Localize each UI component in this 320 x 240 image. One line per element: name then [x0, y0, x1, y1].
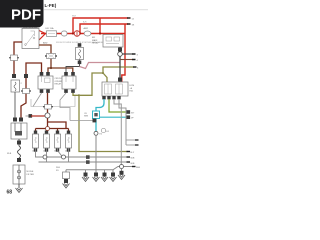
junction circle bus C — [120, 165, 124, 169]
injector no.1 — [32, 131, 39, 153]
tick bus A right — [127, 156, 131, 158]
connector square cyan end — [127, 115, 131, 119]
connector square — [19, 118, 23, 122]
svg-text:W-B: W-B — [136, 167, 141, 169]
wire: injector 1 to bus A — [36, 148, 44, 157]
wavy high tension lead — [18, 146, 21, 158]
svg-text:W-B: W-B — [7, 153, 12, 155]
wire: red main bus — [41, 33, 125, 35]
svg-text:RELAY: RELAY — [55, 83, 62, 86]
wire: olive diagonal to ECU — [103, 73, 107, 96]
drop ground 4 — [101, 170, 108, 182]
junction circle below sensor — [94, 131, 98, 135]
tick olive lower right — [127, 151, 131, 153]
wire: brown to relay B right pin — [51, 68, 73, 72]
wire: red feed to right edge lower — [80, 24, 128, 34]
ground symbol far left — [16, 188, 23, 193]
PDF badge — [0, 0, 44, 28]
svg-text:W-B: W-B — [131, 163, 136, 165]
svg-text:PDF: PDF — [11, 7, 41, 24]
wire: brown to relay A right pin — [48, 68, 51, 72]
injector no.3 — [54, 131, 61, 153]
wire: dark red stub right 2 — [120, 59, 133, 61]
connector inline maroon net — [21, 89, 31, 94]
connector inline — [43, 105, 53, 110]
svg-text:W-R: W-R — [72, 16, 77, 18]
wire: olive up branch — [79, 73, 103, 95]
svg-text:ECM: ECM — [130, 85, 135, 87]
tick red stub 2 — [127, 23, 131, 25]
wire: ground bus A — [45, 156, 128, 158]
svg-text:1J: 1J — [132, 19, 134, 21]
wire: red V into ignition switch — [39, 31, 46, 41]
connector square at end — [93, 119, 97, 123]
connector square — [17, 158, 21, 162]
drop ground 3 sensor line — [93, 173, 100, 182]
svg-text:SEN: SEN — [84, 116, 89, 118]
circuit opening relay box A — [38, 76, 64, 89]
wire: cyan below sensor — [95, 119, 97, 132]
wire: green ECU branch — [109, 99, 127, 112]
header rule — [44, 9, 148, 11]
wire: cyan ECU to oxygen sensor — [96, 99, 104, 111]
junction dot brown — [50, 67, 52, 69]
junction circles bus A — [43, 155, 47, 159]
connector square — [13, 118, 17, 122]
wire: maroon down to injector bus — [47, 118, 49, 128]
drop ground 1 with inline box — [63, 170, 70, 188]
wire: black to box B left pin — [66, 67, 80, 73]
svg-text:EFI: EFI — [92, 37, 96, 39]
wire: maroon net relay A left / igniter — [21, 63, 42, 118]
connector square — [17, 141, 21, 145]
gray stub right 2 — [126, 144, 136, 146]
svg-text:B-Y: B-Y — [131, 152, 135, 154]
oxygen sensor connector — [84, 111, 100, 119]
svg-text:EFI 15A: EFI 15A — [46, 27, 54, 30]
fuse EFI on red bus — [47, 31, 57, 37]
junction dot olive — [78, 94, 80, 96]
wire: cyan check connector branch — [100, 116, 128, 118]
wire: olive from box B right bottom pin — [73, 93, 79, 95]
wire: brown from ignition switch right — [39, 45, 51, 68]
wire below time switch — [79, 60, 81, 67]
box B pin connectors — [64, 72, 68, 76]
connector square — [78, 61, 82, 65]
tick bus C right — [132, 166, 136, 168]
injector no.4 — [65, 131, 72, 153]
wire: red long vertical to ECU — [122, 24, 125, 83]
relay A pin connectors — [40, 72, 44, 76]
svg-text:FILTER: FILTER — [27, 174, 35, 176]
wire: red feed to right edge upper — [73, 18, 128, 34]
wire: ground bus C — [66, 167, 133, 170]
wire: injector 2 to bus B — [46, 148, 48, 162]
gray lead left of tach stub — [26, 115, 29, 117]
ECU bottom pin connectors — [102, 96, 105, 99]
connector inline on brown — [45, 54, 57, 59]
svg-text:W-B: W-B — [131, 158, 136, 160]
drop ground 2 — [82, 170, 89, 182]
check connector circle — [101, 128, 105, 132]
wire: maroon branch rectangle — [48, 122, 67, 129]
tick red stub 1 — [127, 17, 131, 19]
drop ground 5 — [110, 170, 117, 182]
wire: olive down-loop to right column — [79, 95, 128, 151]
wire below noise filter — [18, 184, 20, 188]
wire: injector 3 to bus A diagonal — [58, 148, 62, 156]
wire: gray ECU pin to bottom junction — [114, 99, 121, 167]
wire: gray below coil box — [14, 92, 16, 118]
wire: pink to ECU area — [80, 63, 120, 69]
svg-text:B-R: B-R — [83, 22, 87, 24]
junction circle node — [45, 113, 50, 118]
svg-text:AM2: AM2 — [43, 42, 48, 45]
ECU box — [102, 82, 134, 96]
wire below coil — [18, 139, 20, 146]
wire: ground bus B — [39, 161, 128, 163]
connector square maroon left — [12, 74, 16, 78]
connector square green end — [127, 110, 131, 114]
connector square above — [78, 43, 82, 47]
fuse inline maroon left — [9, 55, 18, 61]
connector square on maroon net upper — [24, 74, 28, 78]
wire: maroon from ignition switch left — [14, 42, 22, 74]
svg-text:RELAY: RELAY — [92, 42, 99, 45]
svg-text:40: 40 — [65, 151, 67, 153]
noise filter box — [13, 165, 34, 184]
drop ground 6 below circle — [118, 169, 125, 180]
wire: maroon relay A right bottom to junction — [47, 93, 49, 113]
junction dot olive 2 — [102, 72, 104, 74]
svg-text:30: 30 — [54, 151, 56, 153]
svg-text:NOISE: NOISE — [27, 171, 34, 173]
wire: black from relay to ECU — [119, 47, 121, 82]
igniter ignition coil box — [11, 123, 27, 139]
wire: gray diagonal from box B bottom-left — [60, 93, 70, 121]
wire: olive to right stub — [103, 67, 134, 73]
EFI main relay box — [92, 35, 123, 48]
wire: injector 4 to bus B — [68, 148, 70, 162]
wire: red stub to tachometer — [31, 115, 45, 117]
svg-text:FROM POWER SOURCE SYSTEM (SEE: FROM POWER SOURCE SYSTEM (SEE PAGE 20) — [56, 41, 107, 44]
svg-text:20: 20 — [43, 151, 45, 153]
cold start injector coil box — [11, 80, 23, 92]
wire: bus drops — [36, 129, 69, 133]
start injector time switch box — [76, 48, 84, 60]
distributor outer box — [31, 95, 75, 107]
wire: gray diagonal from relay A bottom-left — [33, 93, 42, 107]
gray stub right 1 — [126, 139, 136, 141]
svg-text:L-FE): L-FE) — [45, 3, 57, 8]
wire: injector feed bus — [36, 128, 69, 130]
connector square — [29, 114, 33, 118]
connector circle on injector bus — [46, 127, 50, 131]
svg-text:MAIN: MAIN — [92, 39, 98, 42]
distributor box B — [62, 76, 76, 89]
injector no.2 — [43, 131, 50, 153]
inline connector squares on buses — [86, 155, 90, 159]
svg-text:AM2: AM2 — [84, 27, 89, 30]
wire: gray ECU pin to right stubs — [119, 99, 126, 145]
svg-text:68: 68 — [7, 190, 13, 196]
svg-text:W-B: W-B — [56, 167, 61, 169]
fuse oval 1 on red bus — [62, 31, 68, 36]
connector circle on red bus — [74, 31, 80, 37]
wire: black stub right 1 — [122, 53, 133, 55]
connector square on black — [118, 48, 122, 52]
wire: gray sensor ground to bus — [95, 135, 97, 173]
wire: gray horizontal to sensor line — [70, 120, 94, 122]
fusible link oval on red bus — [84, 31, 91, 36]
svg-text:10: 10 — [32, 151, 34, 153]
tick bus B right — [127, 161, 131, 163]
junction circle on black — [118, 52, 123, 57]
wire: red vertical drop x=100 — [99, 18, 101, 34]
injector bottom pin connectors — [34, 148, 37, 151]
connector square lower on black — [118, 78, 122, 82]
junction dots red bus — [72, 32, 74, 34]
tick olive right — [133, 66, 137, 68]
ignition switch box — [22, 27, 39, 49]
